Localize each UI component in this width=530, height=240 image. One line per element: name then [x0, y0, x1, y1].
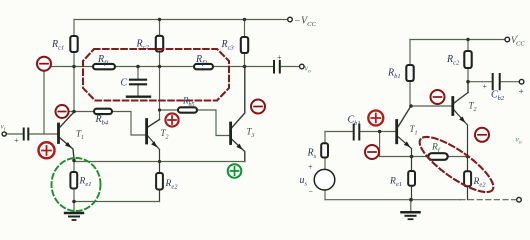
wire source column: [324, 132, 326, 200]
resistor Rc2 right: [464, 51, 471, 68]
svg-text:T2: T2: [161, 128, 169, 141]
wire input row: [7, 133, 58, 135]
wire output row right: [468, 81, 519, 83]
resistor Re2 right: [464, 171, 471, 186]
resistor Rc3: [241, 37, 248, 53]
junction dots right: [378, 38, 470, 202]
wire T1r collector: [398, 108, 410, 127]
resistor Re1 right: [408, 171, 415, 186]
wire base down column: [379, 132, 381, 157]
wire T1 emitter: [60, 138, 74, 159]
svg-text:+: +: [308, 163, 313, 172]
svg-text:T2: T2: [469, 101, 477, 114]
svg-text:T3: T3: [247, 127, 255, 140]
resistor Rf1: [93, 64, 115, 69]
svg-text:Rb1: Rb1: [387, 68, 401, 81]
resistor Rf right: [428, 153, 447, 160]
svg-text:vo: vo: [516, 135, 522, 146]
capacitor C: [130, 80, 146, 85]
capacitor Cb2: [493, 74, 500, 89]
dashed red feedback box: [83, 49, 229, 101]
phase circle minus right 2: [365, 145, 379, 159]
svg-text:Rs: Rs: [307, 148, 317, 161]
resistor Re1: [70, 172, 77, 189]
svg-text:VCC: VCC: [301, 16, 316, 29]
svg-text:T1: T1: [76, 129, 84, 142]
labels right: [300, 54, 505, 189]
terminal Vcc right: [505, 37, 510, 42]
svg-text:vo: vo: [305, 64, 312, 75]
svg-text:Rb5: Rb5: [182, 96, 195, 109]
svg-text:Rc2: Rc2: [446, 54, 460, 67]
wire bottom rail right: [325, 199, 460, 201]
transistor T2 right: [451, 98, 454, 115]
wire T2 emitter column: [148, 136, 160, 202]
svg-text:Rc1: Rc1: [51, 39, 64, 52]
wire T1 collector diagonal: [60, 112, 74, 127]
wire T2r collector: [454, 82, 468, 103]
phase circle plus green: [228, 164, 242, 178]
svg-text:+: +: [277, 53, 282, 62]
svg-text:Re2: Re2: [165, 179, 179, 191]
wire Rc2 column right: [467, 40, 469, 82]
svg-text:us: us: [300, 175, 308, 188]
wire top rail right: [410, 39, 505, 41]
wire T3 collector column: [232, 67, 245, 128]
svg-text:Rf1: Rf1: [97, 54, 109, 67]
wire Rc1 column: [73, 20, 75, 112]
dashed red ellipse Rf: [413, 128, 501, 201]
phase circle minus 1: [37, 57, 51, 71]
resistor Rb2: [94, 109, 112, 114]
wire Rc3 columns: [244, 20, 246, 67]
terminal input: [2, 132, 6, 136]
resistor Re2: [156, 173, 163, 190]
terminal vo right top: [519, 79, 524, 84]
wire T1r emitter: [398, 137, 411, 200]
transistor T1 right: [395, 121, 398, 143]
transistor T2: [145, 120, 148, 144]
wire T2r emitter: [454, 110, 468, 200]
wire ground stem: [73, 202, 75, 213]
svg-text:C: C: [121, 78, 128, 89]
phase circle plus 1: [39, 142, 55, 158]
dashed green ellipse Re1: [52, 158, 101, 211]
svg-text:Rf2: Rf2: [195, 54, 208, 67]
svg-text:−: −: [294, 16, 301, 27]
transistor T1: [57, 124, 60, 143]
resistor Rc2: [156, 36, 163, 52]
svg-text:Rb4: Rb4: [95, 114, 109, 127]
phase circle plus right: [368, 111, 383, 126]
wire emitter rail: [74, 161, 245, 163]
svg-text:Rc2: Rc2: [136, 39, 150, 52]
resistor Rs: [321, 143, 328, 157]
resistor Rc1: [70, 36, 77, 52]
terminal Vcc: [288, 17, 293, 22]
wire top rail: [74, 19, 288, 21]
wire C branch: [137, 67, 139, 97]
svg-text:Cb1: Cb1: [348, 115, 361, 128]
wire ground stem right: [410, 200, 412, 212]
phase circle minus right 1: [431, 90, 445, 104]
wire base column T1: [43, 71, 45, 135]
capacitor Cb1: [354, 125, 360, 140]
wire Rf row: [380, 156, 468, 158]
svg-text:Rf: Rf: [431, 143, 441, 155]
resistor Rb1 right: [406, 65, 413, 81]
wire Re1 column: [73, 159, 75, 202]
transistor T3: [229, 123, 232, 144]
wire Rb3 row: [160, 110, 230, 136]
resistor Rb3: [178, 107, 197, 112]
source us: [314, 169, 335, 190]
svg-text:−: −: [308, 188, 313, 197]
svg-text:T1: T1: [410, 124, 418, 137]
phase circle minus 2: [56, 105, 69, 118]
wire mid feedback row: [50, 66, 300, 68]
capacitor output: [274, 61, 280, 73]
terminal vo right bottom: [517, 197, 522, 202]
phase circle minus 3: [251, 100, 265, 114]
ground right: [402, 211, 420, 214]
wire T2 collector diagonal: [148, 120, 160, 128]
svg-text:+: +: [518, 87, 524, 97]
phase circle minus right 3: [475, 128, 489, 142]
wire bottom row: [74, 201, 160, 203]
svg-text:Re2: Re2: [473, 177, 487, 189]
wire T1r base row: [325, 131, 396, 133]
wire Rc2 columns: [159, 20, 161, 120]
svg-text:vi: vi: [1, 122, 6, 133]
resistor Rf2: [194, 64, 213, 69]
capacitor input: [24, 129, 29, 140]
svg-text:+: +: [14, 136, 19, 145]
wire T2 base row: [410, 105, 451, 107]
ground left: [65, 212, 83, 214]
wire Rb2 row: [69, 112, 146, 136]
svg-text:Re1: Re1: [389, 177, 402, 189]
phase circle plus 2: [165, 113, 178, 126]
svg-text:V′CC: V′CC: [511, 34, 525, 48]
svg-text:Rc3: Rc3: [221, 39, 235, 52]
terminal vo left: [300, 64, 305, 69]
wire Rb1 column: [409, 40, 411, 107]
wire T3 emitter: [232, 140, 245, 162]
svg-text:Re1: Re1: [79, 177, 92, 189]
svg-text:+: +: [482, 82, 487, 91]
labels left: [51, 39, 234, 191]
svg-text:Cb2: Cb2: [491, 90, 505, 103]
